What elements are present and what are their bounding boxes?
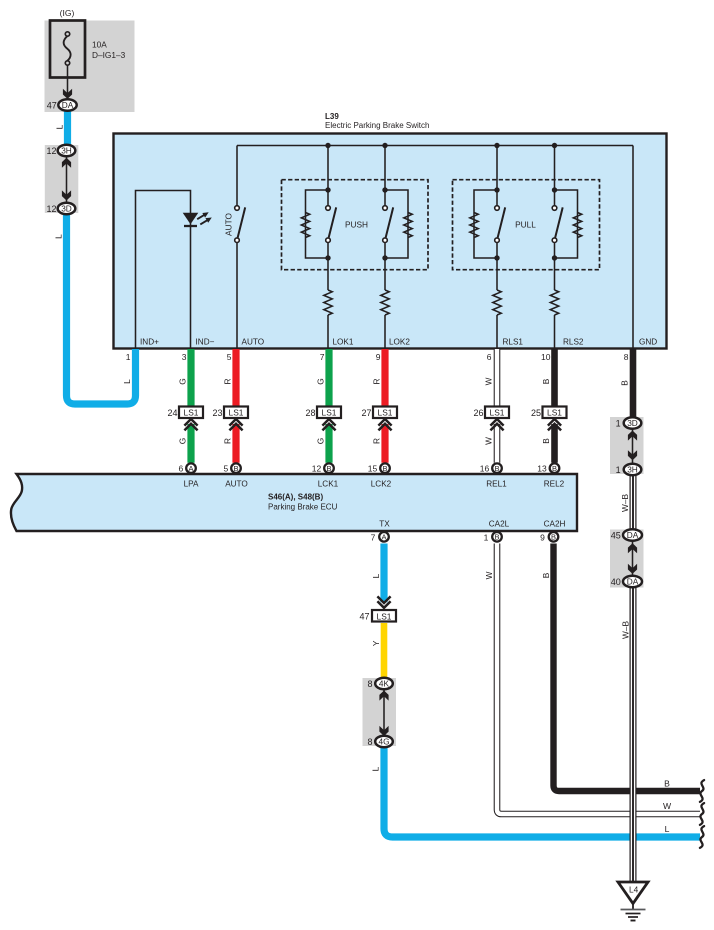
svg-text:16: 16	[480, 463, 490, 473]
svg-text:IND−: IND−	[196, 338, 215, 347]
svg-text:R: R	[223, 438, 233, 444]
svg-text:B: B	[541, 572, 551, 578]
svg-text:W: W	[484, 571, 494, 579]
svg-text:47: 47	[47, 101, 57, 111]
svg-text:47: 47	[359, 612, 369, 622]
svg-text:1: 1	[616, 419, 621, 429]
svg-text:5: 5	[223, 463, 228, 473]
svg-text:B: B	[664, 779, 670, 789]
svg-text:L: L	[55, 124, 65, 129]
svg-text:G: G	[316, 438, 326, 444]
svg-text:CA2H: CA2H	[544, 520, 566, 529]
svg-text:DA: DA	[627, 577, 639, 587]
svg-text:28: 28	[305, 408, 315, 418]
svg-text:RLS1: RLS1	[503, 338, 524, 347]
svg-text:PULL: PULL	[515, 220, 536, 230]
svg-text:RLS2: RLS2	[563, 338, 584, 347]
svg-text:6: 6	[487, 352, 492, 362]
svg-text:10: 10	[541, 352, 551, 362]
svg-text:13: 13	[537, 463, 547, 473]
svg-text:1: 1	[126, 352, 131, 362]
svg-text:L: L	[122, 379, 132, 384]
svg-text:LS1: LS1	[547, 408, 562, 418]
svg-text:TX: TX	[379, 520, 390, 529]
svg-text:LOK1: LOK1	[333, 338, 354, 347]
svg-text:LS1: LS1	[184, 408, 199, 418]
svg-text:AUTO: AUTO	[242, 338, 265, 347]
svg-text:4K: 4K	[379, 679, 390, 689]
svg-text:5: 5	[227, 352, 232, 362]
svg-text:D–IG1–3: D–IG1–3	[92, 50, 126, 60]
svg-text:1: 1	[616, 465, 621, 475]
svg-text:LS1: LS1	[322, 408, 337, 418]
svg-text:L: L	[54, 234, 64, 239]
svg-text:R: R	[372, 379, 382, 385]
svg-text:8: 8	[367, 679, 372, 689]
svg-text:Electric Parking Brake Switch: Electric Parking Brake Switch	[325, 121, 429, 130]
svg-text:L: L	[371, 766, 381, 771]
svg-text:9: 9	[376, 352, 381, 362]
svg-text:3H: 3H	[61, 146, 72, 156]
svg-text:B: B	[620, 380, 630, 386]
svg-text:12: 12	[46, 204, 56, 214]
svg-text:R: R	[372, 438, 382, 444]
svg-text:L4: L4	[629, 885, 639, 895]
svg-text:B: B	[552, 464, 557, 473]
svg-text:W: W	[484, 437, 494, 445]
svg-text:7: 7	[320, 352, 325, 362]
svg-text:6: 6	[178, 463, 183, 473]
svg-text:S46(A), S48(B): S46(A), S48(B)	[268, 493, 323, 502]
svg-text:PUSH: PUSH	[345, 220, 368, 230]
svg-text:10A: 10A	[92, 40, 107, 50]
svg-text:G: G	[178, 378, 188, 384]
svg-text:G: G	[316, 378, 326, 384]
svg-text:15: 15	[368, 463, 378, 473]
svg-text:AUTO: AUTO	[223, 213, 233, 236]
svg-text:W: W	[484, 377, 494, 385]
svg-text:W–B: W–B	[621, 621, 631, 639]
svg-text:B: B	[494, 533, 499, 542]
svg-text:R: R	[223, 379, 233, 385]
svg-text:3D: 3D	[627, 418, 638, 428]
svg-text:DA: DA	[62, 100, 74, 110]
svg-text:45: 45	[611, 531, 621, 541]
svg-text:A: A	[381, 533, 386, 542]
svg-text:G: G	[178, 438, 188, 444]
svg-text:REL1: REL1	[486, 480, 507, 489]
svg-text:IND+: IND+	[140, 338, 159, 347]
svg-text:24: 24	[167, 408, 177, 418]
svg-text:Y: Y	[371, 640, 381, 646]
svg-text:W–B: W–B	[620, 494, 630, 512]
svg-text:B: B	[233, 464, 238, 473]
svg-text:LS1: LS1	[378, 408, 393, 418]
svg-text:CA2L: CA2L	[489, 520, 510, 529]
svg-text:LS1: LS1	[377, 611, 392, 621]
svg-text:8: 8	[624, 352, 629, 362]
svg-text:LCK1: LCK1	[318, 480, 339, 489]
svg-text:(IG): (IG)	[60, 8, 75, 18]
svg-text:L: L	[371, 573, 381, 578]
svg-text:B: B	[541, 438, 551, 444]
svg-text:L: L	[665, 824, 670, 834]
svg-text:LPA: LPA	[184, 480, 199, 489]
svg-text:3D: 3D	[61, 204, 72, 214]
svg-text:23: 23	[212, 408, 222, 418]
svg-text:7: 7	[371, 533, 376, 543]
svg-text:4G: 4G	[378, 737, 389, 747]
svg-text:LOK2: LOK2	[389, 338, 410, 347]
svg-text:W: W	[663, 801, 672, 811]
svg-text:LCK2: LCK2	[371, 480, 392, 489]
svg-text:LS1: LS1	[229, 408, 244, 418]
svg-text:9: 9	[540, 533, 545, 543]
svg-text:8: 8	[367, 737, 372, 747]
svg-text:REL2: REL2	[544, 480, 565, 489]
svg-text:26: 26	[473, 408, 483, 418]
svg-text:27: 27	[361, 408, 371, 418]
svg-text:3H: 3H	[627, 465, 638, 475]
svg-text:B: B	[326, 464, 331, 473]
svg-text:40: 40	[611, 577, 621, 587]
svg-text:L39: L39	[325, 112, 339, 121]
svg-text:12: 12	[312, 463, 322, 473]
svg-text:AUTO: AUTO	[225, 480, 248, 489]
svg-text:25: 25	[531, 408, 541, 418]
svg-text:B: B	[494, 464, 499, 473]
svg-text:DA: DA	[627, 530, 639, 540]
svg-text:Parking Brake ECU: Parking Brake ECU	[268, 502, 338, 511]
svg-text:B: B	[541, 378, 551, 384]
svg-text:3: 3	[182, 352, 187, 362]
svg-text:LS1: LS1	[490, 408, 505, 418]
svg-text:1: 1	[484, 533, 489, 543]
svg-text:B: B	[382, 464, 387, 473]
svg-text:A: A	[188, 464, 193, 473]
svg-text:B: B	[551, 533, 556, 542]
svg-text:12: 12	[46, 146, 56, 156]
svg-text:GND: GND	[639, 338, 657, 347]
